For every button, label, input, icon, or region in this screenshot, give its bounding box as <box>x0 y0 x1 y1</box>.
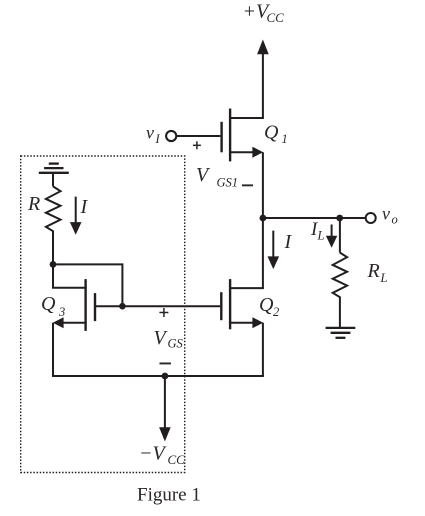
svg-text:L: L <box>380 271 388 285</box>
wire: +VCC rail vertical <box>262 52 264 118</box>
svg-text:1: 1 <box>282 132 288 146</box>
label +VCC <box>243 1 285 26</box>
wire: RL top lead <box>339 218 341 253</box>
label IL <box>310 219 325 243</box>
label vo <box>382 204 398 227</box>
transistor Q3 source arrow head (points left) <box>53 317 64 328</box>
terminal: vo output open circle <box>366 213 376 223</box>
wire: Q2 source horizontal <box>229 322 254 324</box>
wire: bottom rail <box>53 375 264 377</box>
svg-text:R: R <box>367 260 380 282</box>
label VGS <box>154 327 184 351</box>
terminal: vI input open circle <box>166 131 176 141</box>
svg-text:Q: Q <box>41 293 56 315</box>
label + (VGS polarity) <box>159 308 168 317</box>
label Q2 <box>259 294 279 319</box>
svg-text:3: 3 <box>58 305 65 319</box>
svg-text:Q: Q <box>259 294 274 316</box>
svg-text:L: L <box>317 229 325 243</box>
svg-text:CC: CC <box>168 452 186 467</box>
ground symbol above R (flipped) <box>49 162 59 164</box>
wire: output node horizontal to vo terminal <box>263 217 366 219</box>
svg-text:I: I <box>80 196 89 218</box>
transistor Q3 channel bar <box>84 279 86 331</box>
node: junction dot at -VCC tap <box>162 373 169 380</box>
wire: Q3 drain horizontal <box>52 287 87 289</box>
svg-text:2: 2 <box>273 305 279 319</box>
current IL arrow (load current) <box>331 225 333 238</box>
node: junction dot at R / Q3 drain <box>50 261 57 268</box>
svg-text:I: I <box>284 231 293 253</box>
node: junction dot on gate line (diode connection) <box>119 303 126 310</box>
wire: Q2 drain vertical from output node <box>262 218 264 288</box>
svg-text:−V: −V <box>139 443 167 465</box>
svg-text:Q: Q <box>264 122 279 144</box>
transistor Q2 channel bar <box>229 279 231 329</box>
transistor Q2 gate bar <box>220 292 222 320</box>
transistor Q1 gate bar <box>220 122 222 153</box>
transistor Q1 channel bar <box>229 109 231 162</box>
label - (VGS1 polarity) <box>242 184 253 186</box>
current I arrow (bias current through R) <box>75 197 77 224</box>
power -VCC arrow <box>164 376 166 430</box>
wire: Q1 drain horizontal <box>229 117 264 119</box>
svg-text:R: R <box>27 193 40 215</box>
resistor R zigzag <box>46 186 61 233</box>
svg-text:GS: GS <box>168 337 184 351</box>
svg-text:V: V <box>196 164 211 186</box>
label - (VGS polarity) <box>160 363 172 365</box>
wire: diode-connect from node to gate line <box>53 264 122 306</box>
svg-text:GS1: GS1 <box>217 176 239 190</box>
wire: Q2 drain horizontal <box>229 287 264 289</box>
svg-text:v: v <box>146 123 154 143</box>
wire: Q1 source down to output node <box>262 152 264 218</box>
label vI <box>146 123 161 147</box>
svg-text:o: o <box>392 213 398 227</box>
svg-text:V: V <box>154 327 169 349</box>
svg-text:Figure 1: Figure 1 <box>137 485 201 506</box>
label -VCC <box>139 443 185 468</box>
wire: R bottom lead to mirror node <box>52 234 54 265</box>
power +VCC arrow head <box>257 40 269 55</box>
wire: Q1 gate lead from vI <box>176 135 220 137</box>
dotted enclosure box (current-mirror bias cell) <box>21 156 185 473</box>
wire: RL bottom lead <box>339 301 341 328</box>
wire: Q3 source down to bottom rail <box>52 323 54 377</box>
wire: Q2 source down to bottom rail <box>262 323 264 376</box>
label RL <box>367 260 388 285</box>
transistor Q1 source arrow head <box>252 147 263 158</box>
wire: Q3 drain vertical <box>52 264 54 287</box>
svg-text:I: I <box>155 132 161 146</box>
label Q3 <box>41 293 65 319</box>
resistor RL zigzag <box>333 253 347 301</box>
node: junction dot at RL tap <box>336 215 343 222</box>
svg-text:v: v <box>382 204 390 224</box>
wire: Q1 source horizontal <box>229 151 254 153</box>
node: junction dot at Q1 source / Q2 drain <box>260 215 267 222</box>
label + (VGS1 polarity) <box>193 141 201 149</box>
wire: R top lead from ground <box>52 173 54 187</box>
label VGS1 <box>196 164 238 190</box>
ground symbol (under RL) <box>326 327 356 329</box>
wire: common gate line Q3 to Q2 <box>95 305 220 307</box>
svg-text:CC: CC <box>267 10 285 25</box>
wire: Q3 source horizontal <box>63 322 87 324</box>
transistor Q2 source arrow head <box>252 317 263 328</box>
current I arrow (drain current into Q2) <box>272 231 274 258</box>
label Q1 <box>264 122 288 147</box>
transistor Q3 gate bar <box>94 293 96 321</box>
